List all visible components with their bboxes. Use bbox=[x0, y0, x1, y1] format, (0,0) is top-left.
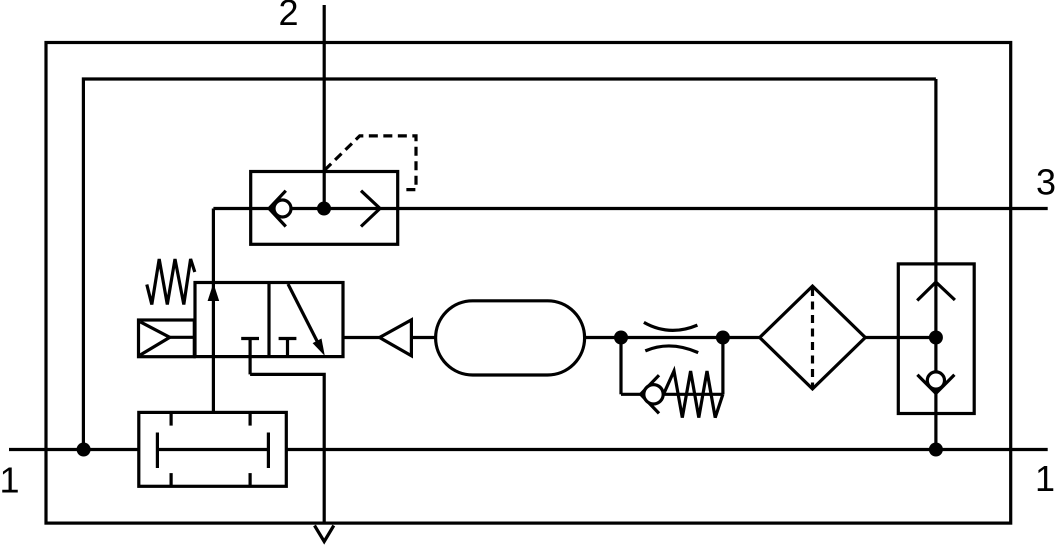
port 1 line right segment bbox=[286, 448, 1047, 451]
wire valve to right pilot triangle bbox=[343, 336, 380, 339]
wire filter to check unit bbox=[865, 336, 936, 339]
exhaust flow diagonal arrow in V1 right square bbox=[288, 284, 318, 342]
bypass branch right rise bbox=[721, 338, 724, 395]
blocked port T left in V1 bbox=[241, 337, 259, 340]
piston bar right bbox=[267, 433, 270, 469]
piston bar left bbox=[156, 433, 159, 469]
exhaust wire from valve bbox=[250, 374, 324, 523]
check valve seat in V2 bbox=[269, 191, 286, 227]
node check unit junction bbox=[929, 331, 943, 345]
pneumatic pilot actuator of V1 bbox=[139, 320, 195, 357]
3/2 valve body V1 bbox=[195, 283, 343, 357]
free flow chevron up bbox=[917, 282, 955, 300]
flow arrow up in V1 left square bbox=[208, 283, 220, 301]
exhaust outlet V bbox=[315, 526, 334, 542]
port 1 line left segment bbox=[9, 448, 139, 451]
throttle restriction arc upper bbox=[644, 322, 698, 330]
port 2 line bbox=[323, 5, 326, 209]
flow arrow in V2 bbox=[361, 191, 380, 227]
flow sensor box bbox=[139, 412, 286, 486]
bypass branch left drop bbox=[619, 338, 622, 395]
check valve ball in unit bbox=[927, 372, 944, 389]
pilot triangle (pneumatic actuation) bbox=[380, 320, 412, 356]
svg-text:1: 1 bbox=[1035, 458, 1055, 499]
svg-text:3: 3 bbox=[1036, 162, 1056, 203]
wire pilot passage y=208.3 to port 3 bbox=[213, 207, 1047, 210]
valve V1 center divider bbox=[267, 283, 270, 357]
bypass check valve ball bbox=[644, 385, 663, 404]
bypass wire to check seat bbox=[621, 393, 723, 396]
pilot control dashed line bbox=[325, 136, 416, 190]
return spring of V1 bbox=[147, 259, 195, 305]
wire reservoir to throttle bbox=[585, 336, 621, 339]
wire throttle to filter bbox=[723, 336, 760, 339]
check valve unit box bbox=[898, 264, 974, 414]
blocked port T right in V1 bbox=[279, 337, 297, 340]
tick bottom left bbox=[170, 473, 173, 486]
piston rod line bbox=[157, 448, 268, 451]
wire triangle to reservoir bbox=[411, 336, 435, 339]
check valve seat V bbox=[917, 375, 954, 394]
svg-text:2: 2 bbox=[278, 0, 298, 33]
node throttle right junction bbox=[716, 331, 730, 345]
node port-2 junction dot bbox=[317, 202, 331, 216]
bypass spring bbox=[664, 371, 723, 418]
pilot check valve box V2 bbox=[251, 172, 398, 245]
filter element dashed bbox=[811, 288, 814, 387]
inner enclosure line (port 1 internal supply loop) bbox=[83, 79, 936, 450]
wire vertical x=935.9 from inner top to port-1 line bbox=[934, 79, 937, 450]
filter diamond bbox=[760, 286, 866, 389]
node port-1 right junction bbox=[929, 443, 943, 457]
svg-text:1: 1 bbox=[0, 460, 20, 501]
node port-1 left junction bbox=[77, 443, 91, 457]
air reservoir capsule bbox=[436, 301, 585, 375]
tick top right bbox=[249, 412, 252, 425]
check valve ball in V2 bbox=[274, 200, 291, 217]
throttle restriction arc lower bbox=[645, 346, 698, 353]
tick bottom right bbox=[249, 473, 252, 486]
tick top left bbox=[170, 412, 173, 425]
bypass check valve seat bbox=[641, 375, 659, 413]
node throttle left junction bbox=[614, 331, 628, 345]
throttle flow line bbox=[621, 336, 723, 339]
wire vertical x=213.4 valve feed bbox=[212, 209, 215, 413]
